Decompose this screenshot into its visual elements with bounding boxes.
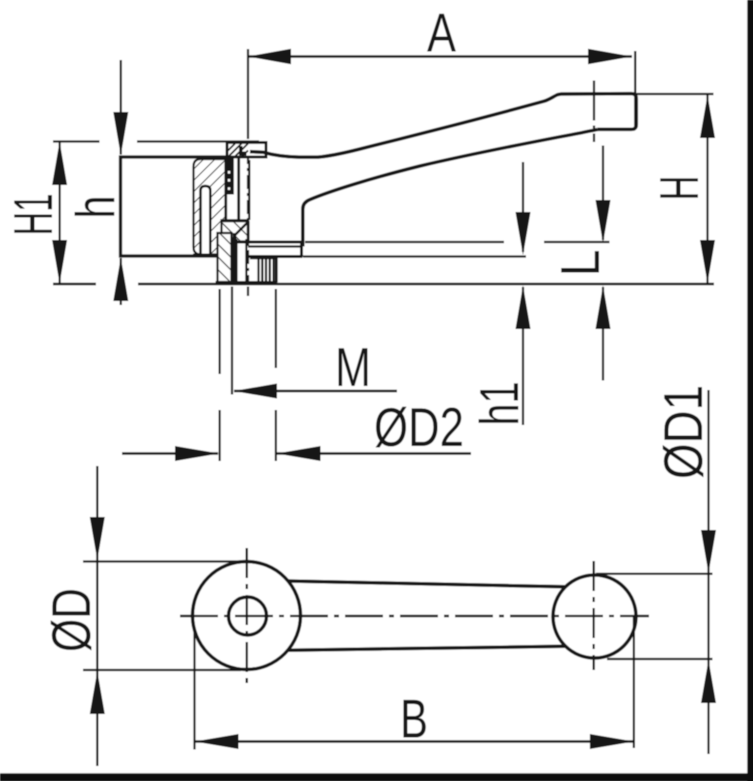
thread comb xyxy=(259,259,274,283)
svg-text:B: B xyxy=(400,687,428,749)
svg-text:L: L xyxy=(549,250,611,277)
plan big circle xyxy=(193,562,301,670)
dimension B line xyxy=(195,740,634,743)
washer right edge xyxy=(300,242,303,257)
dimension D2 extensions xyxy=(219,289,221,374)
dimension A line xyxy=(248,55,633,58)
washer bottom thick line xyxy=(248,255,303,258)
dimension h line xyxy=(120,60,122,155)
border bottom bar xyxy=(0,773,753,781)
dimension B extensions xyxy=(193,632,195,750)
serration strip dark xyxy=(227,158,234,195)
center line vertical hub x=248 xyxy=(247,49,249,139)
plan vertical center line big circle xyxy=(246,548,248,684)
dimension H1 line xyxy=(58,142,60,284)
dimension H extension top xyxy=(634,93,714,95)
bushing bottom thick line xyxy=(193,254,222,258)
washer mid line xyxy=(248,245,302,247)
handle top edge xyxy=(250,94,636,158)
dimension D2 line xyxy=(122,452,218,455)
svg-text:M: M xyxy=(335,336,371,398)
dimension H line xyxy=(706,95,708,283)
cap socket dark detail xyxy=(239,146,247,156)
svg-text:H1: H1 xyxy=(2,194,64,236)
dimension D line xyxy=(96,466,98,766)
dimension A right arrowhead xyxy=(588,49,632,64)
wedge nut hatched xyxy=(222,221,249,242)
extension line y=242 right xyxy=(305,241,504,243)
dimension A left arrowhead xyxy=(248,49,292,64)
wedge chamfer line xyxy=(234,223,248,237)
extension line top of cap (y=141.5) xyxy=(53,140,259,142)
extension line y=256.5 right xyxy=(303,255,526,257)
cap hatch left part xyxy=(228,144,248,158)
plan arm bottom edge xyxy=(288,646,566,650)
redraw center lines over circles xyxy=(180,615,649,617)
dimension D extensions xyxy=(83,560,245,562)
plan arm top edge xyxy=(288,581,565,587)
plan horizontal center line xyxy=(180,615,649,617)
plan small circle xyxy=(553,575,636,658)
plan bore circle xyxy=(229,597,267,635)
dimension D1 extensions xyxy=(596,573,713,575)
bushing outer rectangle xyxy=(121,157,226,256)
screw shank verticals xyxy=(237,158,240,220)
plan vertical center line small circle xyxy=(592,561,594,670)
handle tip center line xyxy=(593,81,595,143)
stud shank white with edges xyxy=(235,239,237,282)
stud bottom thick xyxy=(216,281,278,285)
cap screw head xyxy=(227,143,266,158)
flange bottom thick line xyxy=(235,241,303,244)
lower hatched strip left of stud xyxy=(218,233,232,282)
wire frame border right bar xyxy=(747,0,753,781)
svg-text:h1: h1 xyxy=(468,382,530,426)
dimension M extension xyxy=(231,287,233,395)
dimension A right extension xyxy=(634,51,636,129)
dimension h1 line upper xyxy=(522,162,524,252)
dimension M line xyxy=(234,390,397,393)
stud black band xyxy=(231,237,237,282)
bushing hatched section xyxy=(194,159,226,255)
svg-text:ØD2: ØD2 xyxy=(374,396,464,458)
dimension D1 line xyxy=(707,390,709,754)
svg-text:ØD1: ØD1 xyxy=(652,385,714,479)
svg-text:h: h xyxy=(64,196,126,219)
dimension L line upper xyxy=(602,146,604,241)
mounting plane line xyxy=(53,283,96,286)
slot in bushing xyxy=(201,186,211,256)
handle lower edge xyxy=(303,129,598,246)
svg-text:H: H xyxy=(648,176,710,201)
svg-text:A: A xyxy=(427,2,456,64)
svg-text:ØD: ØD xyxy=(40,588,102,652)
